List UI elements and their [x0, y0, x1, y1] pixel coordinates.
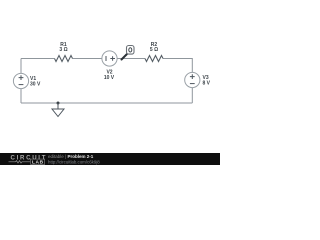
wire R2 to top-right corner and down [163, 59, 192, 73]
resistor R1 [55, 56, 73, 62]
junction ground node [57, 102, 60, 105]
wire bottom [21, 102, 192, 104]
wire left vertical bottom [20, 89, 22, 104]
probe needle [122, 54, 128, 60]
wire V2 to R2 [117, 58, 145, 60]
wire right vertical bottom [191, 88, 193, 104]
svg-text:30 V: 30 V [30, 82, 41, 88]
footer caption line 2 url [48, 159, 100, 164]
label R1 value [59, 42, 67, 53]
resistor R2 [145, 56, 163, 62]
label R2 value [150, 42, 158, 53]
label V1 value [30, 76, 41, 88]
wire top-left from node to R1 [21, 58, 55, 60]
ground [52, 103, 64, 117]
wire left vertical top [20, 59, 22, 74]
wire R1 to V2 [73, 58, 103, 60]
svg-text:5 Ω: 5 Ω [150, 47, 158, 53]
footer logo CIRCUIT [11, 154, 48, 161]
svg-text:8 V: 8 V [203, 81, 211, 87]
label V2 value [104, 70, 115, 81]
voltage source V2 [102, 51, 117, 66]
probe flag 0 [127, 46, 135, 55]
footer logo wire+LAB [9, 159, 45, 165]
voltage source V3 [185, 72, 200, 87]
svg-text:3 Ω: 3 Ω [59, 47, 67, 53]
svg-text:http://circuitlab.com/c6k9j8: http://circuitlab.com/c6k9j8 [48, 159, 100, 164]
footer bar [0, 153, 220, 165]
voltage source V1 [13, 73, 28, 88]
svg-text:LAB: LAB [32, 159, 44, 165]
label V3 value [203, 75, 211, 87]
footer caption line 1 [48, 154, 94, 159]
svg-text:10 V: 10 V [104, 75, 115, 81]
